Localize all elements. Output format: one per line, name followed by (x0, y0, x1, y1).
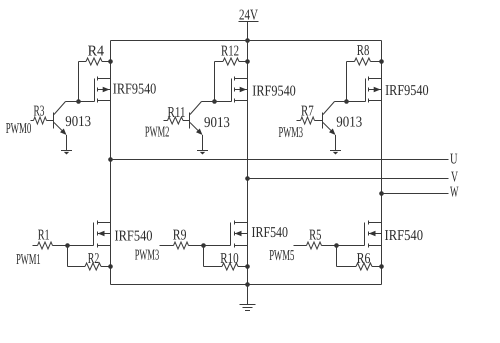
svg-text:PWM5: PWM5 (269, 248, 294, 264)
resistor R9 (gate series) (160, 242, 204, 249)
wire top rail (111, 40, 382, 42)
resistor R3 (base) (31, 117, 54, 124)
wire emitter to ground cell 2 (202, 135, 204, 151)
svg-text:R4: R4 (88, 43, 105, 59)
svg-text:V: V (451, 169, 458, 185)
ground (signal) cell 3 (330, 151, 341, 155)
resistor R7 (base) (297, 117, 323, 124)
svg-text:PWM1: PWM1 (16, 252, 40, 268)
resistor R8 (347, 58, 382, 65)
wire right rail (phase W leg) (381, 41, 383, 285)
R7 value label (301, 103, 314, 119)
ground (earth) (240, 305, 256, 311)
wire middle rail (phase V leg) (247, 41, 249, 285)
node W label (450, 184, 459, 200)
wire gate node cell 1 (66, 101, 95, 103)
svg-text:PWM3: PWM3 (135, 247, 160, 263)
R5 value label (309, 227, 321, 243)
svg-text:9013: 9013 (336, 115, 362, 131)
Q2 9013 value label (204, 115, 230, 131)
R1 value label (38, 227, 50, 243)
node V label (451, 169, 458, 185)
node gate junction low cell 3 (334, 243, 339, 248)
U1 IRF9540 value label (113, 82, 157, 98)
node gate junction low cell 2 (201, 243, 206, 248)
transistor Q3 9013 NPN (323, 102, 336, 136)
svg-text:IRF540: IRF540 (115, 228, 153, 244)
transistor U6 IRF540 N-MOSFET (365, 221, 382, 248)
wire gate node cell 3 (335, 101, 366, 103)
R3 value label (34, 103, 45, 119)
transistor U3 IRF9540 P-MOSFET (366, 77, 382, 103)
wire phase W output (382, 193, 449, 195)
24V supply label (239, 8, 258, 24)
svg-text:R5: R5 (309, 227, 321, 243)
svg-text:R3: R3 (34, 103, 45, 119)
node gate junction cell 3 (344, 99, 349, 104)
wire junction to gate low cell 1 (68, 245, 94, 247)
svg-text:PWM3: PWM3 (279, 125, 304, 141)
wire R12 branch down to gate node (214, 62, 216, 102)
node W tap (379, 191, 384, 196)
ground (signal) cell 1 (61, 151, 72, 155)
svg-text:IRF540: IRF540 (385, 228, 424, 244)
wire to ground (247, 285, 249, 305)
svg-text:PWM2: PWM2 (145, 125, 170, 141)
wire bottom rail (111, 284, 382, 286)
svg-text:R11: R11 (168, 105, 186, 121)
transistor Q1 9013 NPN (54, 102, 67, 136)
svg-text:9013: 9013 (204, 115, 230, 131)
resistor R5 (gate series) (294, 242, 337, 249)
wire R8 branch down to gate node (346, 62, 348, 102)
wire R4 branch down to gate node (78, 62, 80, 102)
svg-text:IRF9540: IRF9540 (385, 83, 429, 99)
svg-text:R9: R9 (173, 227, 187, 243)
resistor R2 (gate-source) (68, 263, 111, 270)
resistor R6 (gate-source) (337, 263, 382, 270)
U3 IRF9540 value label (385, 83, 429, 99)
wire R10 branch down (203, 246, 205, 267)
24V underline bar (239, 21, 259, 23)
svg-text:W: W (450, 184, 459, 200)
node R4-rail junction (108, 59, 113, 64)
svg-text:U: U (450, 151, 458, 167)
svg-text:R1: R1 (38, 227, 50, 243)
U4 IRF540 value label (115, 228, 153, 244)
R2 value label (88, 251, 100, 267)
wire R2 branch down (67, 246, 69, 267)
svg-text:IRF9540: IRF9540 (113, 82, 157, 98)
resistor R10 (gate-source) (204, 263, 248, 270)
svg-text:9013: 9013 (65, 114, 91, 130)
svg-text:R10: R10 (220, 251, 238, 267)
R4 value label (88, 43, 105, 59)
svg-text:IRF9540: IRF9540 (252, 84, 295, 100)
node V tap (245, 176, 250, 181)
node R2-rail junction (108, 264, 113, 269)
Q3 9013 value label (336, 115, 362, 131)
svg-text:R2: R2 (88, 251, 100, 267)
node ground tap junction (245, 282, 250, 287)
node gate junction cell 2 (212, 99, 217, 104)
node gate junction cell 1 (76, 99, 81, 104)
transistor U2 IRF9540 P-MOSFET (232, 77, 248, 103)
PWM1 input label (16, 252, 40, 268)
R12 value label (221, 43, 239, 59)
resistor R12 (215, 58, 248, 65)
wire phase V output (248, 178, 449, 180)
wire 24V feed (247, 22, 249, 41)
svg-text:R7: R7 (301, 103, 314, 119)
wire gate node cell 2 (202, 101, 232, 103)
node R10-rail junction (245, 264, 250, 269)
PWM3 input label (135, 247, 160, 263)
node U tap (108, 157, 113, 162)
transistor U1 IRF9540 P-MOSFET (95, 77, 111, 103)
svg-text:PWM0: PWM0 (6, 121, 32, 137)
node R6-rail junction (379, 264, 384, 269)
node 24V junction (245, 38, 250, 43)
PWM5 input label (269, 248, 294, 264)
wire R6 branch down (336, 246, 338, 267)
transistor Q2 9013 NPN (190, 102, 203, 136)
resistor R4 (79, 58, 111, 65)
R9 value label (173, 227, 187, 243)
node R8-rail junction (379, 59, 384, 64)
R10 value label (220, 251, 238, 267)
svg-text:IRF540: IRF540 (252, 225, 289, 241)
wire junction to gate low cell 2 (204, 245, 231, 247)
svg-text:R6: R6 (357, 251, 371, 267)
PWM3 input label (279, 125, 304, 141)
R8 value label (357, 43, 370, 59)
U5 IRF540 value label (252, 225, 289, 241)
transistor U4 IRF540 N-MOSFET (94, 221, 111, 248)
node gate junction low cell 1 (65, 243, 70, 248)
ground (signal) cell 2 (197, 151, 208, 155)
transistor U5 IRF540 N-MOSFET (231, 221, 248, 248)
PWM0 input label (6, 121, 32, 137)
wire left rail (phase U leg) (110, 41, 112, 285)
Q1 9013 value label (65, 114, 91, 130)
U2 IRF9540 value label (252, 84, 295, 100)
svg-text:R12: R12 (221, 43, 239, 59)
wire junction to gate low cell 3 (337, 245, 365, 247)
node U label (450, 151, 458, 167)
node R12-rail junction (245, 59, 250, 64)
PWM2 input label (145, 125, 170, 141)
wire phase U output (111, 159, 449, 161)
svg-text:R8: R8 (357, 43, 370, 59)
resistor R11 (base) (164, 117, 190, 124)
wire emitter to ground cell 3 (335, 135, 337, 151)
resistor R1 (gate series) (33, 242, 68, 249)
R11 value label (168, 105, 186, 121)
wire emitter to ground cell 1 (66, 135, 68, 151)
U6 IRF540 value label (385, 228, 424, 244)
R6 value label (357, 251, 371, 267)
